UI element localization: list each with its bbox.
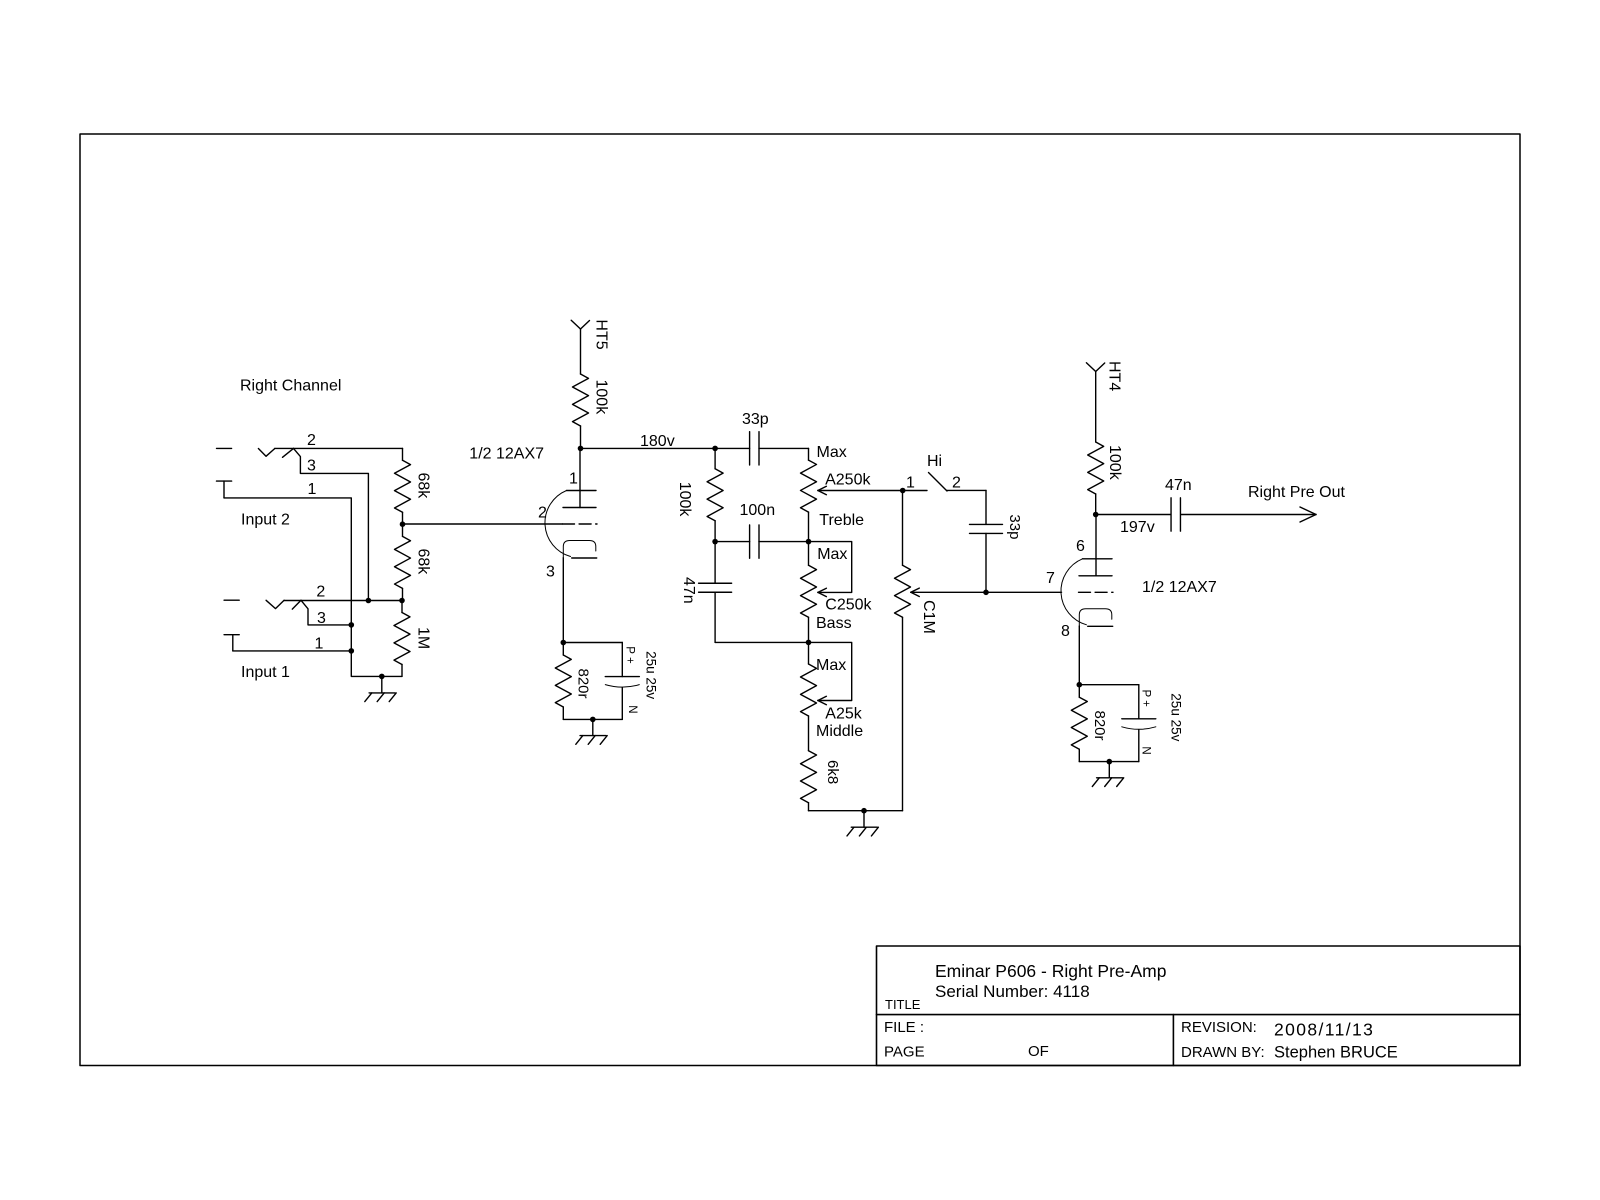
svg-text:25u 25v: 25u 25v xyxy=(1168,693,1183,741)
label 25u 25v V1 xyxy=(644,651,659,699)
title block frame xyxy=(877,946,1521,1066)
capacitor 33p treble xyxy=(750,432,759,465)
svg-text:1/2 12AX7: 1/2 12AX7 xyxy=(1142,579,1217,596)
svg-text:1: 1 xyxy=(569,470,578,487)
wire cathode bottom V2 xyxy=(1079,761,1139,763)
drawing border xyxy=(80,134,1520,1066)
junction plate V1 xyxy=(578,446,584,452)
pin 2 label V1 xyxy=(538,505,547,522)
text drawn by xyxy=(1274,1044,1398,1062)
wire output xyxy=(1181,514,1316,516)
jack J2 pin 1 label xyxy=(308,481,317,498)
wire HT4 to 100k xyxy=(1095,372,1097,443)
jack J1 tip terminal xyxy=(224,599,239,601)
svg-text:Max: Max xyxy=(816,657,846,674)
wire J2 pin1 to ground bus xyxy=(224,498,402,677)
wire J1 pin3 xyxy=(301,600,351,625)
junction wiper/C1M/switch xyxy=(900,488,906,494)
wire 47n bottom xyxy=(715,592,808,642)
svg-text:Input 1: Input 1 xyxy=(241,664,290,681)
wire 47n top xyxy=(714,542,716,584)
svg-text:Max: Max xyxy=(817,546,847,563)
label A25k xyxy=(825,706,862,723)
capacitor 100n xyxy=(750,525,759,558)
svg-text:33p: 33p xyxy=(742,411,769,428)
junction A250k/C250k xyxy=(806,539,812,545)
resistor 100k slope xyxy=(707,448,723,541)
svg-text:25u 25v: 25u 25v xyxy=(644,651,659,699)
label 1/2 12AX7 V1 xyxy=(469,446,544,463)
junction cathode V2 xyxy=(1077,682,1083,688)
pot A250k treble xyxy=(801,460,817,541)
jack J1 tip contact xyxy=(266,600,301,609)
svg-text:Bass: Bass xyxy=(816,615,852,632)
arrow Right Pre Out xyxy=(1300,507,1316,522)
svg-text:1/2 12AX7: 1/2 12AX7 xyxy=(469,446,544,463)
wire 197v node xyxy=(1096,514,1171,516)
svg-text:C250k: C250k xyxy=(825,596,872,613)
resistor 820r V1 xyxy=(555,643,571,720)
junction slope mid xyxy=(712,539,718,545)
label 68k upper xyxy=(414,473,431,500)
jack J2 pin 3 label xyxy=(307,457,316,474)
pin 8 label V2 xyxy=(1061,623,1070,640)
switch contact 2 label xyxy=(952,474,961,491)
svg-text:2: 2 xyxy=(538,505,547,522)
svg-text:C1M: C1M xyxy=(920,600,937,634)
ground cathode V1 xyxy=(576,719,607,744)
jack J1 pin 3 label xyxy=(317,610,326,627)
wire tone bottom xyxy=(809,810,903,812)
wire J1 pin1 xyxy=(233,650,351,652)
svg-text:Right Channel: Right Channel xyxy=(240,378,341,395)
wire J2 pin3 xyxy=(294,448,369,600)
svg-text:N: N xyxy=(626,705,638,713)
svg-text:68k: 68k xyxy=(414,549,431,576)
resistor 6k8 xyxy=(801,751,817,811)
svg-text:DRAWN BY:: DRAWN BY: xyxy=(1181,1044,1265,1061)
jack J2 tip terminal xyxy=(217,447,232,449)
label C250k xyxy=(825,596,872,613)
svg-text:820r: 820r xyxy=(575,669,592,699)
junction grid tap xyxy=(400,521,406,527)
label Treble xyxy=(819,512,864,529)
wire 100n right xyxy=(759,541,809,543)
junction J2pin3/J1pin2 xyxy=(366,598,372,604)
wire cathode cap top V1 xyxy=(563,643,622,677)
junction cathode V1 xyxy=(561,640,567,646)
label P+ V2 xyxy=(1140,690,1152,708)
svg-text:197v: 197v xyxy=(1120,519,1155,536)
wire HT5 to 100k xyxy=(580,329,582,374)
svg-text:A250k: A250k xyxy=(825,472,871,489)
svg-text:HT5: HT5 xyxy=(592,319,609,349)
label P+ V1 xyxy=(624,646,636,664)
text revision date xyxy=(1274,1020,1374,1040)
label HT4 xyxy=(1106,361,1123,391)
label 47n bass xyxy=(680,577,697,604)
resistor 1M xyxy=(394,601,410,677)
ground cathode V2 xyxy=(1092,762,1123,787)
wire cathode V2 xyxy=(1078,626,1080,685)
pot A25k middle xyxy=(801,642,817,750)
label 33p bright xyxy=(1006,514,1023,539)
label 25u 25v V2 xyxy=(1168,693,1183,741)
svg-text:P +: P + xyxy=(1140,690,1152,708)
capacitor 33p bright xyxy=(970,524,1003,533)
wire J1 pin2 to divider xyxy=(284,600,402,602)
svg-text:REVISION:: REVISION: xyxy=(1181,1019,1257,1036)
label Hi xyxy=(927,453,942,470)
text title line 2 xyxy=(935,982,1090,1001)
label 1M xyxy=(414,627,431,649)
switch Hi blade xyxy=(929,473,948,492)
wire cathode cap top V2 xyxy=(1079,685,1139,719)
wire plate V2 xyxy=(1095,515,1097,576)
svg-text:6: 6 xyxy=(1076,538,1085,555)
supply HT5 arrow xyxy=(571,320,589,329)
switch contact 1 label xyxy=(906,475,915,492)
wire cathode bottom V1 xyxy=(563,718,622,720)
label 100k plate V1 xyxy=(593,380,610,416)
label 180v xyxy=(640,433,675,450)
junction cathode ground V2 xyxy=(1107,759,1113,765)
svg-text:TITLE: TITLE xyxy=(885,997,921,1012)
svg-text:Serial Number: 4118: Serial Number: 4118 xyxy=(935,982,1090,1001)
wire 33p to A250k xyxy=(759,448,809,460)
svg-text:6k8: 6k8 xyxy=(824,760,841,784)
capacitor 47n bass xyxy=(699,583,732,592)
junction C250k/A25k xyxy=(806,640,812,646)
wire 180v node xyxy=(581,447,750,449)
wire switch to 33p xyxy=(947,490,986,524)
svg-text:3: 3 xyxy=(307,457,316,474)
wire plate V1 xyxy=(579,448,581,507)
text title line 1 xyxy=(935,961,1166,981)
label 100k slope xyxy=(676,482,693,518)
junction 68k/1M xyxy=(399,598,405,604)
svg-text:2: 2 xyxy=(952,474,961,491)
wiper treble xyxy=(818,486,927,494)
svg-text:2008/11/13: 2008/11/13 xyxy=(1274,1020,1374,1040)
resistor 100k plate V2 xyxy=(1088,442,1104,515)
capacitor 25u V2 xyxy=(1122,719,1156,762)
label N V1 xyxy=(626,705,638,713)
svg-text:100n: 100n xyxy=(740,502,776,519)
label TITLE xyxy=(885,997,921,1012)
junction J2pin1/J1pin3 xyxy=(349,622,355,628)
label Middle xyxy=(816,723,863,740)
svg-text:33p: 33p xyxy=(1006,514,1023,539)
svg-text:68k: 68k xyxy=(414,473,431,500)
label N V2 xyxy=(1140,746,1152,754)
label 100n xyxy=(740,502,776,519)
svg-text:Right Pre Out: Right Pre Out xyxy=(1248,484,1345,501)
svg-text:100k: 100k xyxy=(593,380,610,416)
junction tone ground xyxy=(861,808,867,814)
pot C250k bass xyxy=(801,542,817,643)
label OF xyxy=(1028,1043,1049,1060)
label 100k plate V2 xyxy=(1106,445,1123,481)
label Right Pre Out xyxy=(1248,484,1345,501)
svg-text:A25k: A25k xyxy=(825,706,862,723)
svg-text:Stephen BRUCE: Stephen BRUCE xyxy=(1274,1044,1398,1062)
resistor 100k plate V1 xyxy=(573,374,589,448)
resistor 68k lower xyxy=(395,524,411,600)
svg-text:3: 3 xyxy=(546,564,555,581)
label Max bass xyxy=(817,546,847,563)
svg-text:8: 8 xyxy=(1061,623,1070,640)
text Input 2 xyxy=(241,512,290,529)
junction plate V2 xyxy=(1093,512,1099,518)
junction J1 pin1 xyxy=(349,648,355,654)
svg-text:7: 7 xyxy=(1046,570,1055,587)
label Max treble xyxy=(817,444,847,461)
svg-text:47n: 47n xyxy=(680,577,697,604)
title block column divider xyxy=(1172,1015,1174,1066)
svg-text:820r: 820r xyxy=(1091,711,1108,741)
label C1M xyxy=(920,600,937,634)
label 197v xyxy=(1120,519,1155,536)
jack J2 sleeve xyxy=(217,481,232,498)
svg-text:180v: 180v xyxy=(640,433,675,450)
capacitor 25u V1 xyxy=(605,677,639,720)
label 1/2 12AX7 V2 xyxy=(1142,579,1217,596)
tube V1 xyxy=(545,491,597,559)
wire cathode V1 xyxy=(562,558,564,643)
label 820r V1 xyxy=(575,669,592,699)
title block divider xyxy=(877,1014,1521,1016)
junction tone feed xyxy=(712,446,718,452)
label REVISION xyxy=(1181,1019,1257,1036)
text Right Channel xyxy=(240,378,341,395)
svg-text:100k: 100k xyxy=(1106,445,1123,481)
svg-text:1: 1 xyxy=(906,475,915,492)
pin 1 label V1 xyxy=(569,470,578,487)
svg-text:Input 2: Input 2 xyxy=(241,512,290,529)
svg-text:100k: 100k xyxy=(676,482,693,518)
svg-text:PAGE: PAGE xyxy=(884,1044,925,1061)
svg-text:47n: 47n xyxy=(1165,477,1192,494)
svg-text:1: 1 xyxy=(315,635,324,652)
junction cathode ground V1 xyxy=(590,717,596,723)
svg-text:OF: OF xyxy=(1028,1043,1049,1060)
label A250k xyxy=(825,472,871,489)
pin 3 label V1 xyxy=(546,564,555,581)
resistor 68k upper xyxy=(395,448,411,524)
label 33p treble xyxy=(742,411,769,428)
junction input ground xyxy=(379,674,385,680)
jack J1 pin 2 label xyxy=(316,584,325,601)
junction grid V2 xyxy=(983,590,989,596)
label FILE xyxy=(884,1019,924,1036)
label 47n output xyxy=(1165,477,1192,494)
wiper volume xyxy=(911,588,1062,596)
jack J1 pin 1 label xyxy=(315,635,324,652)
ground input bus xyxy=(365,676,396,701)
label 6k8 xyxy=(824,760,841,784)
label Bass xyxy=(816,615,852,632)
label HT5 xyxy=(592,319,609,349)
tube V2 xyxy=(1061,559,1113,627)
svg-text:FILE :: FILE : xyxy=(884,1019,924,1036)
jack J1 sleeve xyxy=(224,635,239,651)
svg-text:Treble: Treble xyxy=(819,512,864,529)
svg-text:Max: Max xyxy=(817,444,847,461)
svg-text:Middle: Middle xyxy=(816,723,863,740)
pot C1M volume xyxy=(895,491,911,811)
capacitor 47n output xyxy=(1171,498,1180,531)
svg-text:Eminar P606 - Right Pre-Amp: Eminar P606 - Right Pre-Amp xyxy=(935,961,1166,981)
label DRAWN BY xyxy=(1181,1044,1265,1061)
pin 6 label V2 xyxy=(1076,538,1085,555)
jack J2 tip contact xyxy=(258,448,293,457)
svg-text:HT4: HT4 xyxy=(1106,361,1123,391)
svg-text:N: N xyxy=(1140,746,1152,754)
wire 100n left xyxy=(715,541,750,543)
wire grid V1 xyxy=(403,523,563,525)
label 820r V2 xyxy=(1091,711,1108,741)
svg-text:1: 1 xyxy=(308,481,317,498)
text Input 1 xyxy=(241,664,290,681)
wire 33p to grid xyxy=(985,533,987,592)
resistor 820r V2 xyxy=(1071,685,1087,762)
svg-text:2: 2 xyxy=(316,584,325,601)
svg-text:1M: 1M xyxy=(414,627,431,649)
wire J2 pin2 to R 68k xyxy=(275,447,403,449)
svg-text:2: 2 xyxy=(307,432,316,449)
label Max middle xyxy=(816,657,846,674)
jack J2 pin 2 label xyxy=(307,432,316,449)
pin 7 label V2 xyxy=(1046,570,1055,587)
wiper middle link xyxy=(809,642,852,704)
label 68k lower xyxy=(414,549,431,576)
supply HT4 arrow xyxy=(1086,363,1104,372)
svg-text:P +: P + xyxy=(624,646,636,664)
svg-text:Hi: Hi xyxy=(927,453,942,470)
label PAGE xyxy=(884,1044,925,1061)
wiper bass link xyxy=(809,542,852,597)
ground tone stack xyxy=(847,811,878,836)
